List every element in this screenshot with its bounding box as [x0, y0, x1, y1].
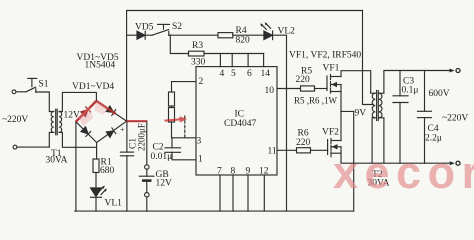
- wire pin4 stub: [219, 54, 221, 67]
- wire T1 secondary top to bridge top: [59, 92, 96, 111]
- wire VF1 drain to T2 primary top: [341, 71, 375, 94]
- wire R1 to VL1: [95, 173, 97, 189]
- output terminal top: [450, 69, 461, 73]
- wire T2 secondary bottom to output: [379, 118, 384, 163]
- svg-text:VF1: VF1: [323, 64, 340, 74]
- wire R3 to pins bus: [204, 53, 264, 55]
- transformer T2: [372, 91, 382, 121]
- svg-text:2: 2: [199, 77, 204, 87]
- LED VL2: [260, 22, 272, 39]
- diode VD2 top-right: [106, 106, 116, 116]
- svg-text:R4: R4: [236, 26, 247, 36]
- capacitor C2: [165, 148, 181, 153]
- svg-text:0.01μ: 0.01μ: [151, 152, 173, 162]
- wire left vertical from rail to bridge+: [126, 11, 128, 122]
- svg-text:330: 330: [191, 58, 206, 68]
- resistor R6: [297, 148, 328, 153]
- wire from S2 to R4: [169, 34, 218, 36]
- wire pin5 stub: [231, 54, 233, 67]
- svg-text:220: 220: [296, 75, 311, 85]
- wire pin8 stub: [232, 175, 234, 211]
- capacitor C1: [120, 121, 133, 211]
- svg-text:2.2μ: 2.2μ: [425, 134, 442, 144]
- wire C2 to pin1: [172, 152, 196, 160]
- LED VL1: [91, 185, 107, 197]
- wire bridge left corner to ground bus: [75, 122, 77, 211]
- diode VD5: [137, 31, 152, 39]
- battery GB: [139, 121, 154, 211]
- wire VF1 source down to common node: [340, 85, 342, 112]
- wire T2 secondary top to output: [379, 71, 451, 94]
- red watermark small arrow center: [165, 116, 188, 122]
- svg-text:30VA: 30VA: [46, 156, 68, 166]
- capacitor C3: [393, 71, 408, 164]
- svg-text:VD1~VD4: VD1~VD4: [72, 82, 114, 92]
- switch S2: [152, 24, 169, 35]
- svg-text:xecor: xecor: [333, 147, 474, 198]
- wire S1 to T1 primary top: [36, 92, 54, 112]
- svg-text:10: 10: [265, 86, 275, 96]
- wire VD5/S2 branch horizontal: [127, 34, 137, 36]
- wire bridge+ to battery branch (under red): [127, 120, 147, 122]
- output terminal bottom: [450, 161, 460, 165]
- MOSFET VF2: [328, 139, 341, 157]
- wire T1 secondary bottom to bridge bottom: [59, 132, 97, 147]
- svg-text:220: 220: [296, 138, 311, 148]
- svg-text:+: +: [120, 125, 125, 134]
- wire pin9 stub: [247, 175, 249, 211]
- wire R3 branch down: [170, 35, 188, 53]
- ground bus bottom: [75, 210, 354, 212]
- svg-text:~220V: ~220V: [442, 114, 468, 124]
- svg-text:600V: 600V: [429, 89, 450, 99]
- svg-text:6: 6: [247, 69, 252, 79]
- resistor R5: [301, 86, 328, 91]
- resistor R4: [218, 33, 264, 38]
- svg-text:5: 5: [231, 69, 236, 79]
- transformer T1: [51, 109, 62, 135]
- svg-text:680: 680: [100, 166, 115, 176]
- svg-text:VF2: VF2: [322, 128, 339, 138]
- wire center tap from rail: [363, 11, 374, 105]
- wire pin11 to R6: [277, 149, 297, 151]
- svg-text:CD4047: CD4047: [224, 119, 256, 129]
- wire pin12 stub: [263, 175, 265, 211]
- MOSFET VF1: [327, 75, 341, 94]
- wire pin6 stub: [247, 54, 249, 67]
- wire T2 primary bottom to bottom line: [372, 118, 375, 163]
- svg-text:8: 8: [231, 167, 236, 177]
- wire pin7 stub: [219, 175, 221, 211]
- wire pin14 stub: [263, 54, 265, 67]
- svg-text:R5 ,R6 ,1W: R5 ,R6 ,1W: [294, 96, 338, 106]
- svg-text:R3: R3: [192, 41, 203, 51]
- input terminal top with switch S1: [12, 78, 37, 93]
- svg-text:VL2: VL2: [278, 27, 296, 37]
- svg-text:VL1: VL1: [105, 199, 123, 209]
- dashed wiper line to pin3 wire: [184, 116, 186, 138]
- bridge rectifier VD1-VD4 diamond: [76, 101, 127, 143]
- svg-text:0.1μ: 0.1μ: [402, 86, 419, 96]
- potentiometer RP vertical: [169, 106, 175, 122]
- wire VL1 to ground bus: [95, 197, 97, 211]
- svg-text:4: 4: [220, 69, 225, 79]
- red watermark strokes over bridge: [76, 100, 147, 126]
- IC CD4047 box: [196, 67, 277, 175]
- svg-text:S1: S1: [39, 80, 49, 90]
- svg-text:1N5404: 1N5404: [85, 61, 116, 71]
- svg-text:VD5: VD5: [135, 23, 154, 33]
- diode VD4 bottom-right: [106, 128, 116, 138]
- wire VF2 top to common node: [340, 111, 342, 140]
- wire VL2 down to ground bus: [273, 35, 287, 211]
- svg-text:2200μF: 2200μF: [137, 123, 147, 151]
- svg-text:9: 9: [246, 167, 251, 177]
- wire pin2 stub: [172, 82, 197, 92]
- svg-text:~220V: ~220V: [2, 115, 28, 125]
- svg-text:1: 1: [198, 155, 203, 165]
- svg-text:12V: 12V: [156, 179, 173, 189]
- svg-text:14: 14: [261, 69, 271, 79]
- resistor R2 vertical: [169, 92, 175, 106]
- svg-text:7: 7: [217, 167, 222, 177]
- wire node down to C2: [171, 138, 173, 148]
- svg-text:S2: S2: [172, 22, 182, 32]
- resistor R3: [189, 51, 205, 56]
- svg-text:12: 12: [259, 167, 269, 177]
- wire top supply rail: [127, 10, 362, 12]
- svg-text:3: 3: [197, 137, 202, 147]
- wire pin10 to R5: [277, 88, 301, 90]
- wire common node to ground bus: [341, 111, 354, 211]
- wire VF2 bottom to T2 primary bottom: [340, 147, 342, 153]
- svg-text:IC: IC: [235, 110, 245, 120]
- svg-text:C4: C4: [428, 124, 439, 134]
- wire RP down to node and pin3: [172, 122, 197, 138]
- resistor R1: [93, 159, 99, 173]
- diode VD1 top-left: [81, 107, 91, 117]
- svg-text:C2: C2: [153, 143, 164, 153]
- svg-text:820: 820: [236, 36, 251, 46]
- wire bridge bottom to R1: [96, 143, 98, 160]
- svg-text:R6: R6: [298, 129, 309, 139]
- svg-text:11: 11: [268, 147, 277, 157]
- diode VD3 bottom-left: [81, 127, 91, 137]
- svg-text:9V: 9V: [355, 109, 367, 119]
- wire T1 primary bottom: [49, 132, 54, 147]
- svg-text:VF1, VF2, IRF540: VF1, VF2, IRF540: [289, 51, 361, 61]
- input terminal bottom: [13, 145, 49, 149]
- capacitor C4: [418, 71, 432, 164]
